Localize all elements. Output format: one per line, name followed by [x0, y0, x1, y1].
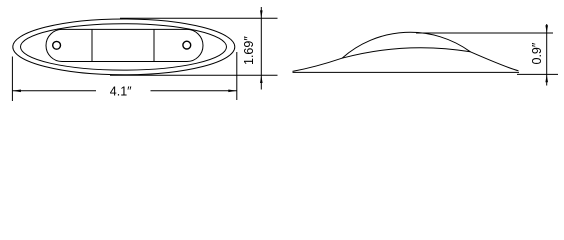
flange profile	[293, 48, 519, 72]
arrow top of 0.9	[545, 25, 548, 33]
extension line left	[11, 57, 13, 102]
lens dome arc	[342, 32, 470, 58]
screw hole right	[183, 41, 191, 49]
extension line top	[120, 17, 278, 19]
dimension line left segment	[12, 90, 96, 92]
dimension 0.9	[416, 24, 558, 86]
arrow top of 1.69	[260, 10, 263, 18]
extension line right	[236, 52, 238, 100]
svg-text:0.9″: 0.9″	[530, 42, 544, 64]
svg-text:4.1″: 4.1″	[110, 84, 132, 98]
divider line right	[153, 29, 155, 61]
divider line left	[91, 29, 93, 61]
svg-text:1.69″: 1.69″	[242, 36, 256, 65]
dimension line right segment	[151, 90, 237, 92]
screw hole left	[53, 41, 61, 49]
extension line bottom	[517, 73, 558, 75]
base line	[293, 71, 520, 73]
dimension line vertical	[260, 7, 262, 90]
arrow bottom of 1.69	[260, 75, 263, 83]
extension line top	[416, 32, 553, 34]
dimension 4.1	[12, 52, 236, 101]
arrow left of 4.1	[12, 90, 21, 93]
outer ellipse (top view body)	[13, 19, 235, 75]
side view	[293, 32, 520, 72]
arrow bottom of 0.9	[545, 74, 548, 82]
extension line bottom	[110, 74, 278, 76]
stadium housing outline	[46, 29, 203, 61]
arrow right of 4.1	[228, 90, 237, 93]
inner ellipse (rim)	[21, 24, 227, 70]
dimension 1.69	[110, 7, 278, 90]
dimension line vertical	[546, 24, 548, 86]
